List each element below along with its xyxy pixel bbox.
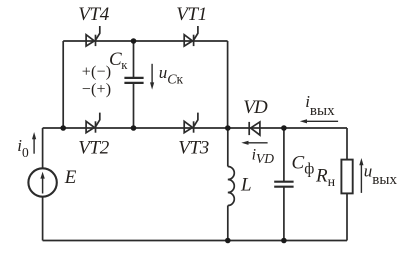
diode VD (249, 122, 260, 135)
wire: load branch upper segment (346, 128, 348, 160)
wire: Ck branch upper segment (133, 41, 135, 78)
junction node: row2 / Ck branch (131, 125, 137, 131)
wire: bottom bus (43, 240, 347, 242)
svg-text:iVD: iVD (252, 146, 275, 166)
thyristor VT4 (86, 26, 100, 46)
svg-text:VT4: VT4 (78, 4, 110, 25)
wire: Cf branch upper segment (283, 128, 285, 181)
annotation arrow: i_vyh (left) (300, 119, 338, 123)
wire: top bus row1 from left corner to right corner (63, 40, 227, 42)
wire: L branch lower segment (227, 206, 229, 241)
svg-text:VT2: VT2 (78, 137, 110, 158)
junction node: top bus / Ck branch (131, 38, 137, 44)
wire: E source branch lower segment (42, 197, 44, 241)
current source E internal arrow (40, 172, 44, 194)
svg-text:Rн: Rн (315, 166, 336, 191)
svg-text:iвых: iвых (305, 92, 335, 119)
wire: L branch upper segment (227, 128, 229, 167)
current source E circle (28, 168, 56, 196)
svg-text:VT3: VT3 (178, 137, 209, 158)
svg-text:VT1: VT1 (176, 4, 207, 25)
wire: right bridge vertical (row1 to row2) (227, 41, 229, 128)
thyristor VT2 (86, 113, 100, 133)
svg-text:Cф: Cф (292, 153, 315, 178)
annotation arrow: u_vyh (up) (359, 158, 363, 193)
svg-text:E: E (64, 167, 77, 188)
junction node: row2 / left bridge vertical (60, 125, 66, 131)
svg-text:L: L (240, 175, 252, 196)
capacitor Cf (274, 182, 293, 187)
wire: Ck branch lower segment (133, 83, 135, 128)
junction node: row2 / right bridge vertical and L branch (225, 125, 231, 131)
wire: load branch lower segment (346, 193, 348, 240)
svg-text:−(+): −(+) (82, 81, 112, 98)
resistor Rn (341, 160, 352, 194)
thyristor VT3 (184, 113, 198, 133)
junction node: row2 / Cf branch (281, 125, 287, 131)
wire: left bridge vertical (row1 to row2) (62, 41, 64, 128)
svg-text:+(−): +(−) (82, 64, 112, 81)
junction node: bottom bus / Cf branch (281, 238, 287, 244)
wire: middle bus row2 from E-branch corner to load corner (43, 127, 347, 129)
annotation arrow: iVD (left) (241, 141, 267, 145)
capacitor Ck (124, 78, 143, 83)
junction node: bottom bus / L branch (225, 238, 231, 244)
annotation arrow: uCk (down) (150, 64, 154, 90)
svg-text:VD: VD (243, 97, 268, 118)
svg-text:Cк: Cк (109, 49, 128, 72)
wire: E source branch upper segment (42, 128, 44, 168)
annotation arrow: i0 (up) (32, 132, 36, 154)
svg-text:i0: i0 (17, 136, 29, 160)
thyristor VT1 (184, 26, 198, 46)
wire: Cf branch lower segment (283, 187, 285, 240)
svg-text:uвых: uвых (364, 162, 398, 188)
svg-text:uCк: uCк (159, 63, 184, 88)
inductor L (228, 167, 235, 206)
